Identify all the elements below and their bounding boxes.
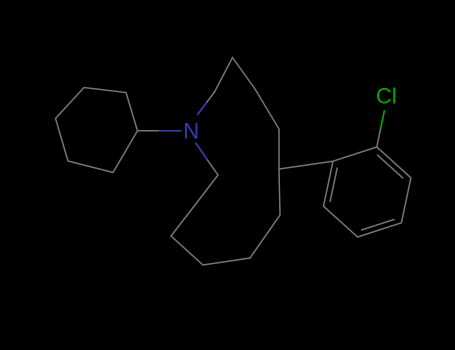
ring: azacyclododecane macrocycle carbon chain C2..C12 [171,58,280,266]
bond: N to ring C12 (down-right), carbon half (gray) [207,159,218,175]
bond: cyclohexane C1 to N, carbon half (gray) [138,130,160,132]
svg-text:N: N [183,118,199,143]
double bond inner line: benzene C4'-C5' edge [362,220,394,231]
bond: macrocycle C5 to chlorophenyl C1' [279,161,333,169]
double bond inner line: benzene C6'-C1' edge [330,168,337,201]
ring: benzene (2-chlorophenyl, right) [324,147,411,237]
svg-text:Cl: Cl [376,84,397,109]
bond: benzene C2' to Cl, chlorine half (green) [381,111,385,129]
double bond inner line: benzene C2'-C3' edge [378,155,403,178]
bond: N to ring C2, nitrogen half (blue) [198,103,206,114]
bond: N to ring C2 (up-right), carbon half (gray) [206,92,214,103]
bond: N to ring C12, nitrogen half (blue) [196,143,207,159]
bond: benzene C2' to Cl, carbon half (gray) [377,129,381,147]
ring: cyclohexane (left substituent on N) [56,88,138,173]
bond: cyclohexane C1 to N, nitrogen half (blue) [160,130,181,132]
